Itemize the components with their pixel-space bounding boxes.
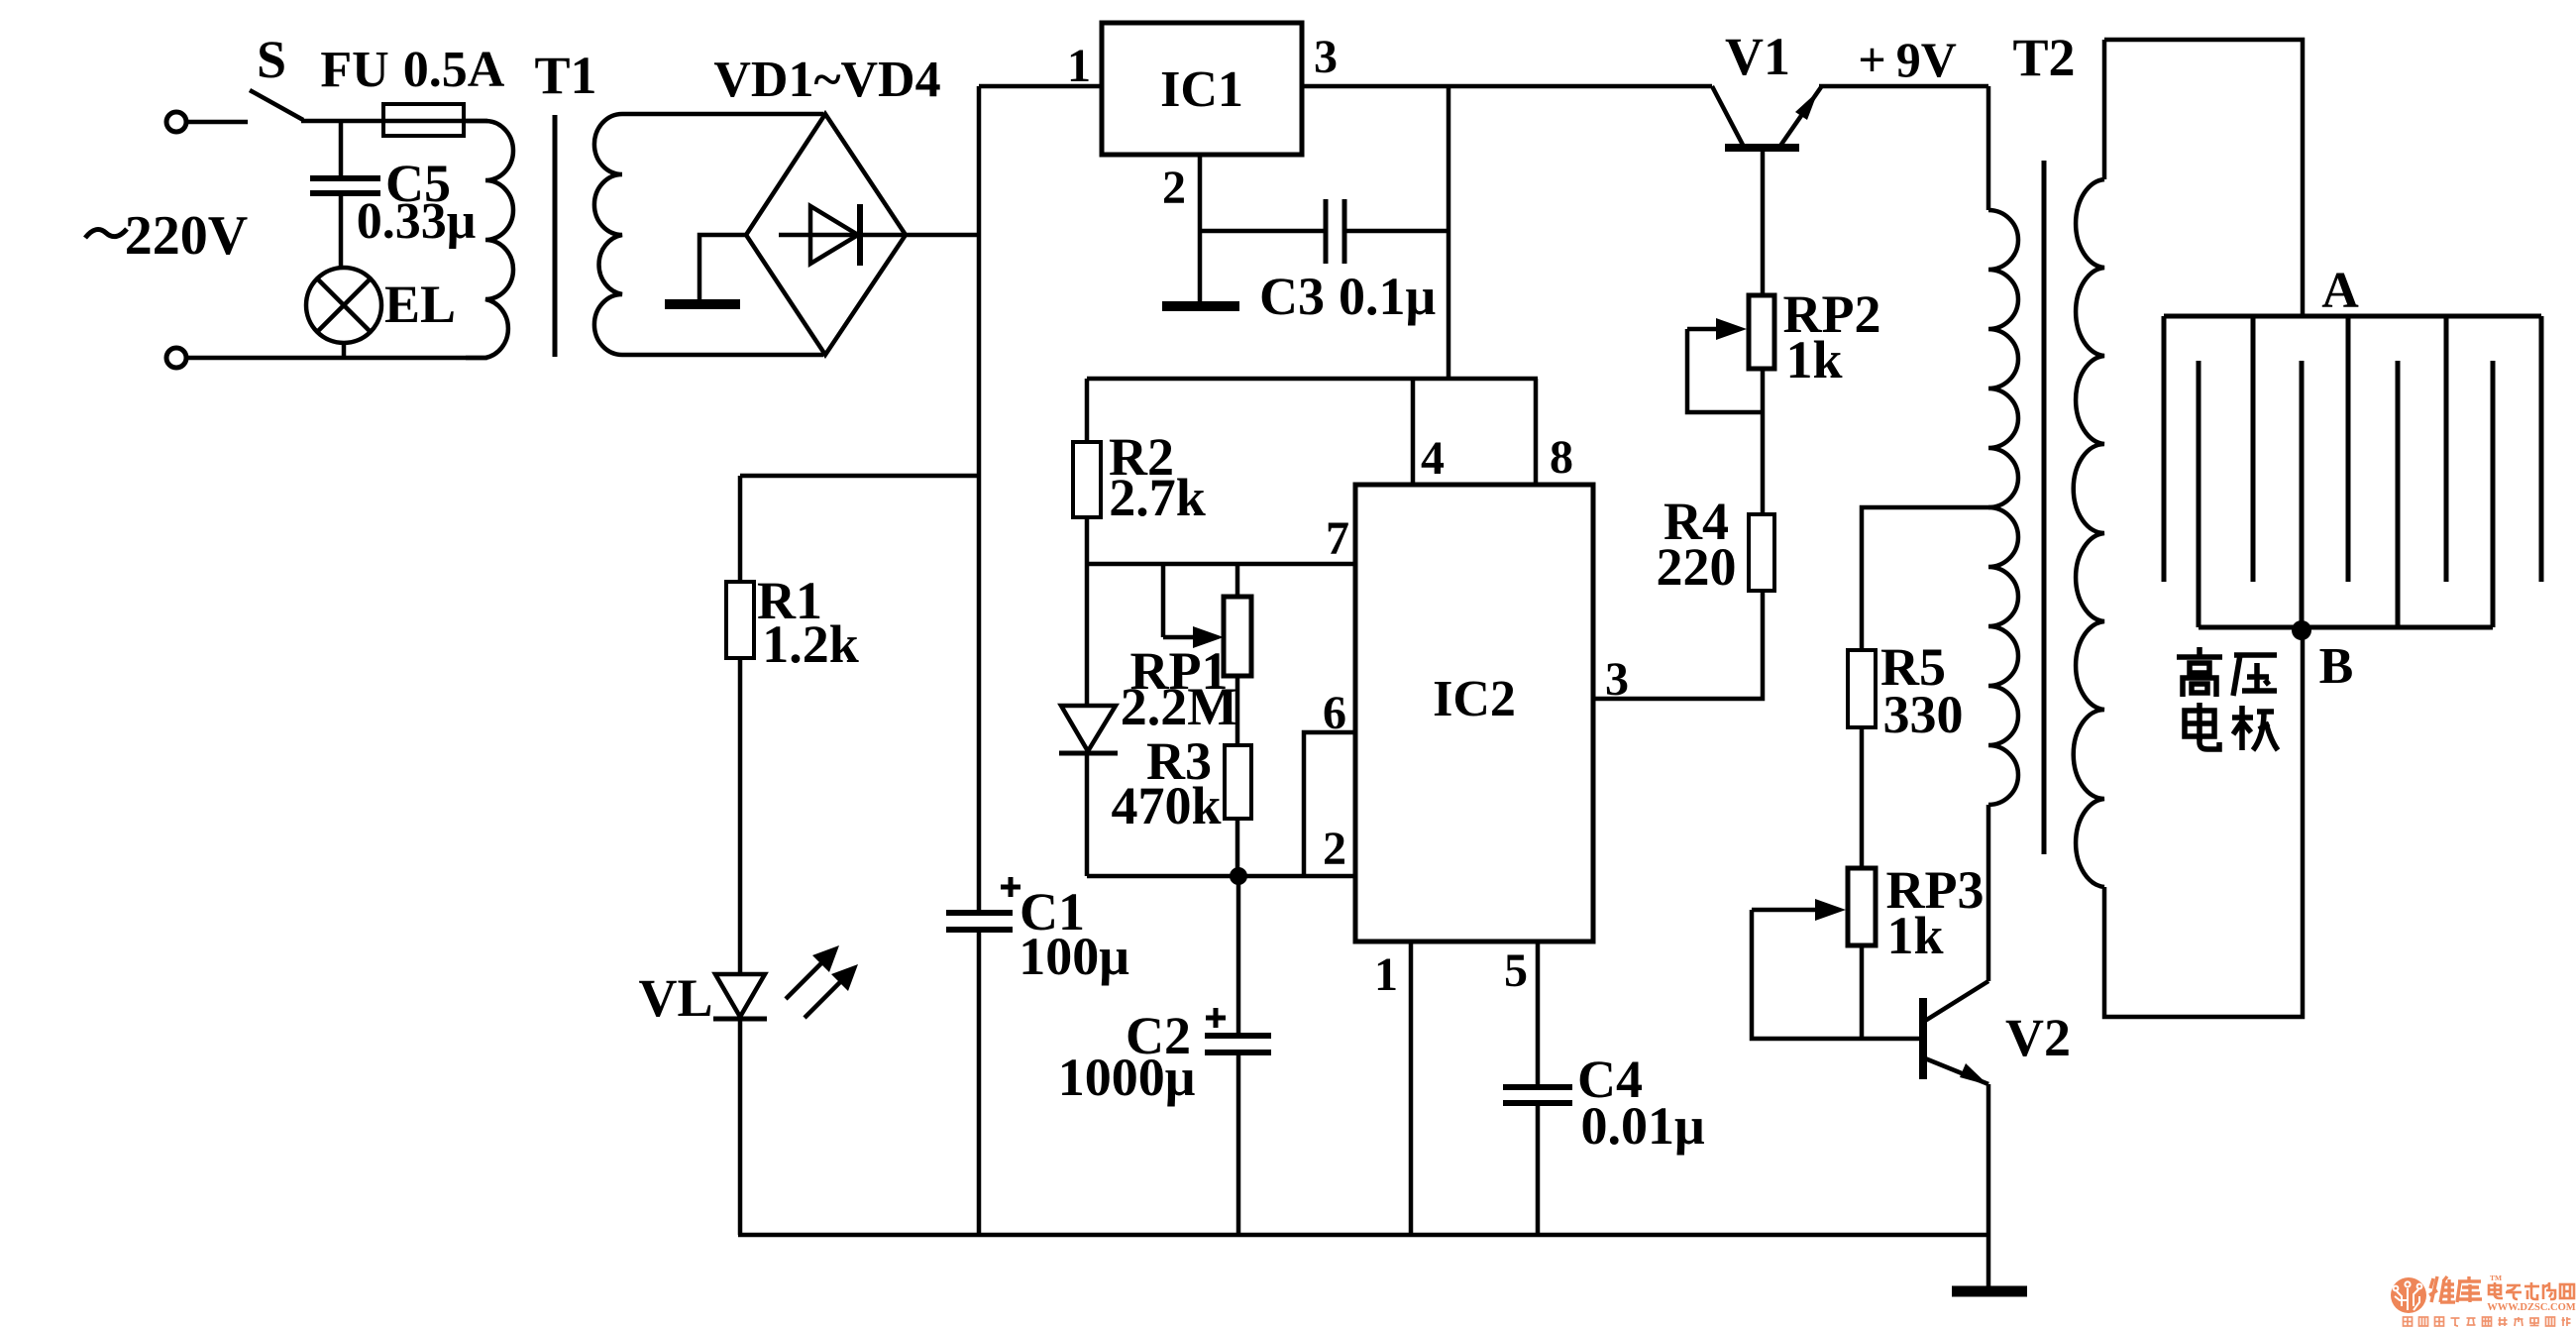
potentiometer RP3 1k [1848, 868, 1876, 945]
transistor V2 [1919, 998, 1927, 1079]
electrode A tooth 2 [2251, 316, 2256, 582]
wire pin2 to C3 [1200, 229, 1326, 234]
logo circle icon [2391, 1277, 2426, 1313]
electrode B tooth 1 [2197, 361, 2201, 627]
resistor R1 1.2k [726, 582, 754, 658]
terminal upper input [166, 112, 186, 132]
svg-text:A: A [2321, 263, 2359, 319]
hanzi ji [2232, 706, 2278, 750]
svg-text:0.1μ: 0.1μ [1339, 267, 1436, 326]
svg-text:T2: T2 [2012, 28, 2075, 87]
transformer T1 primary winding [464, 121, 513, 358]
bridge rectifier VD1~VD4 diamond [746, 114, 906, 355]
wire RP3 bottom to base line [1860, 945, 1865, 1039]
lamp EL [306, 268, 381, 343]
bridge internal diode line [779, 233, 906, 238]
svg-text:VD1~VD4: VD1~VD4 [713, 52, 940, 108]
label ~220V [85, 229, 127, 238]
transformer T2 primary winding upper [1988, 210, 2018, 507]
resistor R2 2.7k [1073, 442, 1101, 517]
hanzi gao [2177, 647, 2222, 697]
electrode B tooth 3 [2396, 361, 2401, 627]
terminal lower input [166, 348, 186, 368]
wire V1 emitter to +9V [1819, 84, 1988, 89]
label gaoya-dianji (high voltage electrode) hand-drawn glyphs [2177, 647, 2278, 750]
svg-text:2.7k: 2.7k [1109, 468, 1206, 527]
electrode B tooth 2 (center) [2300, 361, 2305, 633]
svg-text:V1: V1 [1725, 27, 1790, 86]
electrode A tooth 3 [2346, 316, 2351, 582]
weiku hanzi ku [2457, 1276, 2482, 1302]
transformer T2 secondary bottom lead [2104, 633, 2303, 1017]
wire IC2 pin1 [1409, 941, 1414, 1235]
svg-text:IC2: IC2 [1433, 671, 1516, 727]
svg-text:T1: T1 [534, 46, 596, 105]
resistor R4 220 [1749, 514, 1774, 591]
wire IC2 pin4 [1411, 379, 1416, 485]
wire IC1 pin3 to V1 [1302, 84, 1712, 89]
wire to R1 [738, 476, 743, 582]
svg-text:IC1: IC1 [1160, 61, 1243, 118]
svg-text:3: 3 [1605, 653, 1629, 706]
svg-text:3: 3 [1314, 31, 1338, 83]
weiku hanzi wei [2429, 1276, 2482, 1302]
wire IC1 pin2 down [1198, 155, 1203, 302]
wire diode to pin2 line [1085, 753, 1090, 876]
svg-text:1000μ: 1000μ [1058, 1048, 1196, 1107]
ground under IC1 pin2 [1162, 301, 1239, 311]
wire R3 to node [1235, 819, 1240, 876]
bridge internal diode cathode bar [857, 204, 863, 266]
wire input bottom [187, 356, 487, 361]
svg-text:5: 5 [1504, 944, 1528, 997]
wire bridge output to rail [906, 233, 979, 238]
electrode A tooth 4 [2444, 316, 2449, 582]
wire R2 to pin7 line [1085, 517, 1090, 706]
svg-text:2.2M: 2.2M [1121, 677, 1237, 736]
wire T2 tap to R5 [1862, 507, 1988, 650]
transistor V1 [1712, 86, 1744, 147]
wire IC2 pin5 upper [1536, 941, 1541, 1087]
svg-text:2: 2 [1162, 162, 1186, 214]
ground under V2 [1952, 1286, 2027, 1297]
svg-text:7: 7 [1326, 512, 1349, 565]
svg-text:B: B [2319, 638, 2354, 695]
ground under bridge [665, 299, 740, 309]
svg-text:C3: C3 [1259, 267, 1325, 326]
C2 plus sign [1206, 1016, 1226, 1021]
wire V1 base down [1761, 150, 1766, 295]
svg-text:2: 2 [1323, 823, 1346, 875]
wire switch to fuse [301, 119, 487, 124]
svg-text:8: 8 [1550, 431, 1573, 484]
electrode B tooth 4 [2491, 361, 2496, 627]
capacitor C2 1000u [1205, 1033, 1271, 1039]
wire C3 to junction [1344, 229, 1449, 234]
transformer T2 secondary top lead [2102, 40, 2107, 179]
wire +9V corner down to T2 [1986, 86, 1991, 210]
transformer T1 secondary winding [594, 114, 823, 355]
IC2 box [1355, 485, 1593, 941]
wire node to C2 [1236, 876, 1241, 1036]
svg-text:220V: 220V [125, 205, 248, 267]
weiku slogan hanzi row [2404, 1317, 2571, 1326]
wire input top [187, 120, 248, 125]
svg-text:0.33μ: 0.33μ [357, 193, 476, 250]
svg-text:220: 220 [1657, 537, 1737, 597]
svg-text:1k: 1k [1785, 330, 1842, 389]
transformer T2 secondary winding [2074, 179, 2104, 887]
wire IC2 pin8 [1534, 379, 1539, 485]
svg-text:4: 4 [1421, 432, 1445, 485]
diode in left rail [1061, 706, 1116, 751]
svg-text:470k: 470k [1111, 776, 1221, 835]
IC1 regulator box [1102, 23, 1302, 155]
wire C2 to ground rail [1236, 1052, 1241, 1235]
svg-text:FU: FU [320, 42, 388, 98]
wire IC1 pin1 [979, 84, 1102, 89]
hanzi dian [2185, 703, 2219, 749]
VL emission arrows [786, 954, 830, 999]
C1 plus sign [1001, 885, 1020, 890]
transformer T2 primary winding lower [1988, 507, 2018, 805]
wire R1 to VL [738, 658, 743, 974]
wire R5 to RP3 [1860, 727, 1865, 868]
capacitor C5 0.33u [339, 121, 344, 177]
hanzi ya [2233, 655, 2277, 696]
wire IC2 pin3 to R4 [1593, 591, 1763, 699]
svg-text:0.5A: 0.5A [403, 42, 505, 98]
svg-text:EL: EL [384, 275, 456, 334]
svg-text:TM: TM [2490, 1273, 2502, 1282]
svg-text:0.01μ: 0.01μ [1580, 1096, 1704, 1156]
fuse FU 0.5A [383, 104, 464, 136]
wire VL to ground rail [738, 1019, 743, 1235]
watermark weiku logo [2391, 1273, 2576, 1326]
transformer T2 core [2042, 161, 2047, 854]
wire bridge left vertex to ground [699, 235, 746, 299]
svg-text:WWW.DZSC.COM: WWW.DZSC.COM [2487, 1302, 2576, 1313]
electrode A tooth 1 [2162, 316, 2167, 582]
node B dot [2292, 620, 2311, 640]
wire C4 to ground rail [1536, 1103, 1541, 1235]
electrode A tooth 5 [2539, 316, 2544, 582]
svg-text:S: S [257, 30, 286, 89]
electrode A top rail [2164, 314, 2541, 319]
svg-text:6: 6 [1323, 687, 1346, 739]
capacitor C1 100u plates [946, 910, 1013, 916]
resistor R5 330 [1848, 650, 1876, 727]
switch S [250, 90, 303, 120]
wire lamp to bottom [342, 343, 347, 358]
capacitor C3 0.1u [1324, 199, 1329, 264]
svg-text:1: 1 [1374, 948, 1398, 1001]
capacitor C4 0.01u [1503, 1084, 1572, 1090]
potentiometer RP2 1k [1749, 295, 1774, 369]
wire IC2 pin2 [1087, 874, 1355, 879]
wire IC2 pin6 [1304, 732, 1355, 876]
IC2 top feed line [1087, 377, 1538, 382]
svg-text:1.2k: 1.2k [762, 614, 859, 674]
electrode B bottom rail [2199, 625, 2493, 630]
svg-text:V2: V2 [2005, 1008, 2071, 1067]
wire RP2 to R4 [1761, 369, 1766, 514]
svg-text:VL: VL [638, 968, 712, 1028]
resistor R3 470k [1225, 745, 1251, 819]
svg-text:1k: 1k [1886, 906, 1943, 965]
main vertical rail lower (C1 to ground rail) [977, 931, 982, 1235]
svg-text:100μ: 100μ [1019, 927, 1129, 986]
wire left rail to R2 [1085, 379, 1090, 442]
wire V2 collector to T2 primary [1986, 805, 1991, 981]
wire IC2 pin7 [1087, 562, 1355, 567]
main vertical rail upper (bridge output to C1) [977, 86, 982, 912]
weiku subtitle dianzi-shichang-wang [2489, 1282, 2574, 1299]
wire junction drop from pin3 line [1447, 86, 1451, 379]
LED VL [715, 974, 765, 1017]
wire R1 branch [740, 474, 979, 479]
potentiometer RP1 2.2M [1161, 564, 1166, 637]
wire T2 secondary top to electrode A [2104, 40, 2303, 316]
node dot R3/C2 [1230, 867, 1247, 885]
wire V2 emitter to ground [1986, 1084, 1991, 1289]
svg-text:330: 330 [1883, 685, 1964, 744]
bridge internal diode triangle [810, 206, 858, 264]
svg-text:+ 9V: + 9V [1858, 32, 1957, 87]
ground rail bottom [738, 1233, 1988, 1238]
transformer T1 core [553, 115, 558, 357]
